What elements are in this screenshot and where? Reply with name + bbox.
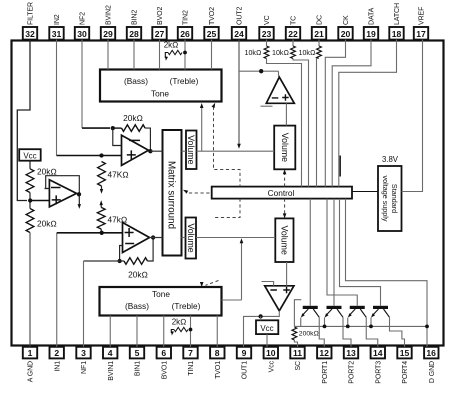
svg-text:NF2: NF2 [80, 12, 87, 25]
pin 15 (PORT4) bottom [397, 347, 411, 384]
svg-text:PORT1: PORT1 [322, 361, 329, 384]
wire Control ground line to pin16 D GND [346, 199, 428, 347]
wire pin30 NF2 riser [81, 40, 83, 129]
op-amp U4 (OUT1 buffer, pointing down) [265, 286, 294, 311]
svg-text:NF1: NF1 [81, 361, 88, 374]
pin 8 (TVO1) bottom [210, 347, 224, 379]
wire Control to voltage supply [352, 191, 378, 193]
wire emitter bus [294, 325, 427, 327]
Volume block (bottom-right) [275, 218, 293, 262]
svg-text:IN2: IN2 [54, 14, 61, 25]
svg-text:8: 8 [215, 348, 220, 358]
svg-text:10kΩ: 10kΩ [245, 49, 262, 57]
svg-text:10kΩ: 10kΩ [272, 49, 289, 57]
dashed control to Matrix surround [186, 192, 210, 194]
wire IN1 to U3 + input [57, 232, 102, 234]
svg-text:LATCH: LATCH [394, 3, 401, 25]
IC body outline [12, 41, 444, 346]
resistor 10k [292, 40, 294, 47]
pin 4 (BVIN1) bottom [103, 347, 117, 381]
pin 24 (OUT2) top [232, 7, 246, 40]
pin 19 (DATA) top [364, 7, 378, 39]
svg-text:7: 7 [188, 348, 193, 358]
node U1 output [148, 149, 152, 153]
wire TC to Control [293, 59, 309, 187]
svg-text:47kΩ: 47kΩ [108, 215, 128, 225]
arrow 47k chain break (up) [100, 200, 103, 205]
pin 18 (LATCH) top [389, 3, 403, 40]
wire divider bottom to pin1 A GND [29, 233, 31, 347]
transistor Q4 (PORT4 driver) [373, 306, 388, 309]
wire node to Vcc box [260, 316, 262, 320]
resistor 20k lower (divider) [26, 209, 34, 233]
svg-text:TVO1: TVO1 [215, 361, 222, 379]
svg-text:(Treble): (Treble) [170, 76, 199, 86]
svg-text:16: 16 [426, 348, 436, 358]
wire 20k right to U1 output [145, 128, 150, 150]
svg-text:Volume: Volume [280, 133, 290, 162]
svg-text:FILTER: FILTER [28, 2, 35, 25]
wire U2 apex to output node [77, 192, 80, 195]
node OUT1 / Vcc [258, 314, 262, 318]
pin 29 (BVIN2) top [101, 5, 115, 40]
svg-text:4: 4 [108, 348, 113, 358]
wire pin20 CK to Control [325, 40, 345, 187]
node U3 feedback [117, 259, 121, 263]
wire node to 20k feedback left [113, 127, 122, 129]
svg-text:13: 13 [346, 348, 356, 358]
pin 30 (NF2) top [75, 12, 89, 40]
arrow dashed into Tone ch2 (tilted) [212, 103, 216, 108]
wire break arrow to 47k lower [100, 205, 102, 208]
svg-text:A GND: A GND [28, 361, 35, 382]
svg-text:2kΩ: 2kΩ [172, 318, 187, 327]
node U1 feedback [111, 126, 115, 130]
pin 9 (OUT1) bottom [237, 347, 251, 379]
node bus to D GND [425, 325, 429, 329]
pin 5 (BIN1) bottom [130, 347, 144, 376]
wire 47k lower to U3 + node [100, 229, 102, 233]
transistor Q1 (PORT1 driver) [303, 306, 318, 309]
Tone block (top, channel 2) [100, 70, 222, 102]
wire NF2 to U1 feedback node [82, 127, 110, 129]
svg-text:BVIN1: BVIN1 [108, 361, 115, 381]
node U3 + input / 47k bottom [100, 231, 104, 235]
svg-text:14: 14 [373, 348, 383, 358]
wire Q3 collector to pin14 PORT3 [366, 317, 378, 347]
wire U2 feedback loop [46, 176, 80, 193]
wire Matrix to Volume TL [182, 150, 187, 152]
svg-text:Tone: Tone [152, 289, 170, 299]
resistor 20k upper (divider) [26, 169, 34, 193]
pin 2 (IN1) bottom [50, 347, 64, 372]
wire node to 20k [120, 260, 124, 262]
wire Tone ch1 output loop [222, 299, 242, 301]
svg-text:PORT2: PORT2 [349, 361, 356, 384]
wire Matrix to Volume BL [182, 237, 186, 239]
node Q4 emitter on bus [369, 325, 373, 329]
Volume block (top-left) [186, 131, 197, 170]
resistor 47k upper [98, 162, 106, 187]
wire Volume BR to U4 input [286, 262, 288, 286]
node 2k to TIN1 wire [189, 328, 193, 332]
svg-text:BIN1: BIN1 [135, 361, 142, 376]
svg-text:PORT4: PORT4 [402, 361, 409, 384]
wire volume bus ch2 [197, 150, 275, 152]
svg-text:BVO1: BVO1 [161, 361, 168, 379]
wire pin26 TIN2 to Tone [184, 40, 186, 70]
svg-text:(Bass): (Bass) [124, 76, 148, 86]
svg-text:DATA: DATA [369, 7, 376, 25]
wire pin28 BIN2 to Tone [133, 40, 135, 70]
svg-text:CK: CK [343, 15, 350, 25]
wire pin31 IN2 riser [56, 40, 58, 156]
svg-text:Volume: Volume [279, 226, 289, 255]
svg-text:BIN2: BIN2 [132, 10, 139, 25]
wire volume bus ch1 [196, 237, 275, 239]
node Q3 emitter on bus [346, 325, 350, 329]
dashed control to Volume BR [284, 199, 286, 216]
wire pin2 IN1 riser [56, 233, 58, 347]
svg-text:BVO2: BVO2 [157, 7, 164, 25]
wire Q4 collector to pin15 PORT4 [390, 317, 405, 347]
svg-text:20: 20 [341, 29, 351, 39]
wire Control to Q1 base [309, 199, 311, 306]
svg-text:20kΩ: 20kΩ [128, 270, 148, 280]
arrow dashed into Volume BR (down) [283, 213, 287, 218]
svg-text:D GND: D GND [429, 361, 436, 383]
wire U4 - stub [262, 282, 274, 286]
Control block [212, 187, 352, 199]
pin 32 (FILTER) top [23, 2, 37, 40]
transistor Q2 (PORT2 driver) [327, 306, 342, 309]
wire pin4 BVIN1 to Tone (bottom) [109, 316, 111, 347]
wire Control to Q2 base [333, 199, 335, 306]
svg-text:VC: VC [264, 15, 271, 25]
node Q2 emitter on bus [323, 325, 327, 329]
wire U1 output to Matrix surround [150, 150, 162, 152]
arrow dashed into Volume TR (up) [283, 169, 287, 174]
svg-text:20kΩ: 20kΩ [37, 167, 57, 177]
wire OUT2 node to U5 [239, 70, 279, 72]
resistor 10k [318, 40, 320, 47]
pin 11 (SC) bottom [290, 347, 304, 371]
pin 14 (PORT3) bottom [371, 347, 385, 384]
svg-text:26: 26 [180, 29, 190, 39]
svg-text:DC: DC [317, 15, 324, 25]
svg-text:3: 3 [81, 348, 86, 358]
dashed control to Tone ch2 [214, 107, 241, 187]
pin 13 (PORT2) bottom [344, 347, 358, 384]
svg-text:9: 9 [242, 348, 247, 358]
arrow dashed into Matrix (tilted up-left) [183, 190, 188, 194]
svg-text:10kΩ: 10kΩ [299, 49, 316, 57]
wire Control to Q3 base [327, 199, 357, 306]
svg-text:19: 19 [366, 29, 376, 39]
wire pin5 BIN1 to Tone (bottom) [136, 316, 138, 347]
svg-text:(Treble): (Treble) [172, 301, 201, 311]
svg-text:200kΩ: 200kΩ [299, 330, 319, 337]
pin 7 (TIN1) bottom [183, 347, 197, 376]
svg-text:TIN1: TIN1 [188, 361, 195, 376]
svg-text:VREF: VREF [419, 7, 426, 25]
svg-text:OUT1: OUT1 [242, 361, 249, 379]
wire pin32 FILTER to divider node [17, 40, 30, 201]
wire pin25 TVO2 to Tone [211, 40, 213, 70]
Volume block (top-right) [274, 126, 295, 170]
svg-text:Vcc: Vcc [268, 360, 275, 372]
wire U5 input from Volume TR top [285, 103, 287, 125]
node OUT2 feedback [259, 69, 263, 73]
svg-text:Vcc: Vcc [260, 324, 273, 333]
wire U2 - input stub [45, 188, 50, 190]
svg-text:2: 2 [54, 348, 59, 358]
svg-text:30: 30 [77, 29, 87, 39]
Vcc box (bottom right) [256, 320, 278, 334]
wire bus up to Tone ch2 [201, 107, 203, 151]
svg-text:20kΩ: 20kΩ [123, 113, 143, 123]
svg-text:21: 21 [314, 29, 324, 39]
wire Q2 collector to pin13 PORT2 [343, 317, 351, 347]
op-amp U3 (input amp ch1, right-pointing, + on top) [123, 223, 150, 253]
wire pin27 BVO2 to Tone [159, 40, 161, 70]
svg-text:12: 12 [319, 348, 329, 358]
wire 20k to U3 output [148, 239, 154, 261]
wire pin18 LATCH to Control [339, 40, 397, 187]
wire Control to Q4 base [340, 199, 381, 306]
svg-text:20kΩ: 20kΩ [37, 219, 57, 229]
dashed diagonal to Tone ch1 arrow [206, 281, 219, 286]
wire 47k upper to break arrow [101, 186, 103, 190]
Vcc box (left) [19, 149, 41, 161]
svg-text:6: 6 [161, 348, 166, 358]
wire U1 apex to node [149, 149, 151, 152]
wire pin29 BVIN2 to Tone [107, 40, 109, 70]
svg-text:31: 31 [52, 29, 62, 39]
op-amp U1 (input amp ch2, right-pointing) [122, 135, 149, 165]
pin 21 (DC) top [312, 15, 326, 40]
pin 25 (TVO2) top [204, 7, 218, 40]
op-amp U5 (OUT2 buffer, pointing up) [266, 77, 294, 103]
svg-text:BVIN2: BVIN2 [106, 5, 113, 25]
wire node to U2 + input [30, 200, 49, 202]
svg-text:28: 28 [129, 29, 139, 39]
wire Vcc box to R 20k top [29, 160, 31, 169]
wire Q1 collector to pin12 PORT1 [319, 317, 324, 347]
svg-text:32: 32 [25, 29, 35, 39]
svg-text:11: 11 [293, 348, 302, 358]
pin 20 (CK) top [338, 15, 352, 40]
svg-text:22: 22 [288, 29, 298, 39]
wire Vcc box to pin10 Vcc [266, 334, 268, 347]
wire dark segment artifact near LATCH line [339, 156, 341, 177]
resistor 10k [266, 40, 268, 47]
pin 22 (TC) top [286, 16, 300, 40]
resistor 20k U3 feedback [124, 258, 148, 265]
wire U3 output to Matrix surround [150, 237, 163, 239]
wire pin7 TIN1 to Tone (bottom) [190, 316, 192, 347]
svg-text:TVO2: TVO2 [209, 7, 216, 25]
arrow into Tone ch2 (up) [200, 103, 204, 108]
pin 28 (BIN2) top [127, 10, 141, 40]
wire pin19 DATA to Control [332, 40, 371, 187]
svg-text:1: 1 [28, 348, 33, 358]
wire down to U5 apex [278, 71, 280, 77]
wire pin3 NF1 riser [83, 261, 85, 347]
svg-text:3.8V: 3.8V [382, 155, 399, 164]
resistor 200k [292, 327, 297, 340]
op-amp U2 (filter amp, right-pointing) [49, 180, 76, 207]
svg-text:Volume: Volume [186, 135, 196, 164]
svg-text:Control: Control [268, 188, 295, 198]
svg-text:2kΩ: 2kΩ [164, 41, 179, 50]
wire pin8 TVO1 to Tone (bottom) [216, 316, 218, 347]
pin 31 (IN2) top [49, 14, 63, 39]
wire pin6 BVO1 to Tone (bottom) [163, 316, 165, 347]
wire bus hook [294, 300, 301, 327]
pin 17 (VREF) top [414, 7, 428, 40]
wire tone loop up to bus [241, 242, 243, 300]
svg-text:IN1: IN1 [55, 361, 62, 372]
wire IN2 to U1 + input [57, 155, 102, 157]
svg-text:SC: SC [295, 361, 302, 371]
arrow 47k chain break (down) [100, 189, 103, 194]
pin 27 (BVO2) top [152, 7, 166, 40]
svg-text:17: 17 [416, 29, 426, 39]
svg-text:Volume: Volume [186, 223, 196, 252]
svg-text:27: 27 [155, 29, 165, 39]
svg-text:29: 29 [103, 29, 113, 39]
arrow tone ch1 into bus (up) [240, 238, 244, 243]
wire U4 output to pin9 OUT1 [244, 311, 280, 347]
wire feedback node toward NF1 [84, 260, 120, 262]
node U2 output [77, 192, 81, 196]
pin 26 (TIN2) top [178, 10, 192, 40]
pin 12 (PORT1) bottom [317, 347, 331, 384]
pin 16 (D GND) bottom [424, 347, 438, 383]
svg-text:24: 24 [234, 29, 244, 39]
svg-text:10: 10 [266, 348, 276, 358]
svg-text:47KΩ: 47KΩ [108, 170, 130, 180]
svg-text:TC: TC [291, 16, 298, 25]
wire pin24 OUT2 down to bus [238, 40, 240, 145]
svg-text:PORT3: PORT3 [375, 361, 382, 384]
wire feedback node to U1 - input [113, 128, 122, 145]
svg-text:23: 23 [262, 29, 272, 39]
node U3 output [151, 235, 155, 239]
Tone block (bottom, channel 1) [100, 287, 222, 316]
resistor 47k lower [97, 207, 105, 229]
svg-text:(Bass): (Bass) [125, 301, 149, 311]
wire node to U1 + [102, 155, 122, 157]
wire VC to Control [267, 59, 302, 187]
wire 200k to pin11 SC [294, 340, 297, 347]
node 2k to TIN2 wire [183, 51, 187, 55]
node U1 + input / 47k top [99, 153, 103, 157]
Matrix surround block [163, 130, 182, 256]
dashed control from Control to Tone ch1 [214, 199, 240, 218]
transistor Q3 (PORT3 driver) [350, 306, 365, 309]
wire U3 - input down [120, 246, 123, 262]
wire U5 - stub [261, 105, 273, 107]
svg-text:Matrix surround: Matrix surround [165, 161, 176, 229]
pin 3 (NF1) bottom [76, 347, 90, 374]
pin 6 (BVO1) bottom [157, 347, 171, 379]
svg-text:Tone: Tone [151, 89, 169, 99]
Volume block (bottom-left) [186, 218, 197, 259]
svg-text:voltage supply: voltage supply [381, 176, 390, 222]
Standard voltage supply block [378, 166, 402, 231]
wire node to U3 + [102, 232, 123, 234]
svg-text:25: 25 [207, 29, 217, 39]
wire DC to Control [317, 59, 320, 187]
svg-text:OUT2: OUT2 [237, 7, 244, 25]
pin 1 (A GND) bottom [23, 347, 37, 382]
wire pin17 VREF to voltage supply [402, 40, 423, 192]
svg-text:Vcc: Vcc [23, 151, 36, 160]
dashed control to Volume TR [284, 173, 286, 187]
node divider mid / U2 + input [28, 198, 32, 202]
arrow dashed into Tone ch1 (down) [200, 282, 204, 287]
svg-text:18: 18 [392, 29, 402, 39]
wire between divider resistors [29, 193, 31, 209]
svg-text:5: 5 [135, 348, 140, 358]
wire U2 output down (break) [78, 196, 80, 205]
arrow U2 output break (down) [78, 204, 81, 209]
pin 10 (Vcc) bottom [264, 347, 278, 373]
resistor 20k U1 feedback [122, 125, 146, 132]
svg-text:15: 15 [400, 348, 410, 358]
svg-text:TIN2: TIN2 [183, 10, 190, 25]
pin 23 (VC) top [259, 15, 273, 39]
arrow OUT2 line into bus (down) [237, 144, 241, 149]
